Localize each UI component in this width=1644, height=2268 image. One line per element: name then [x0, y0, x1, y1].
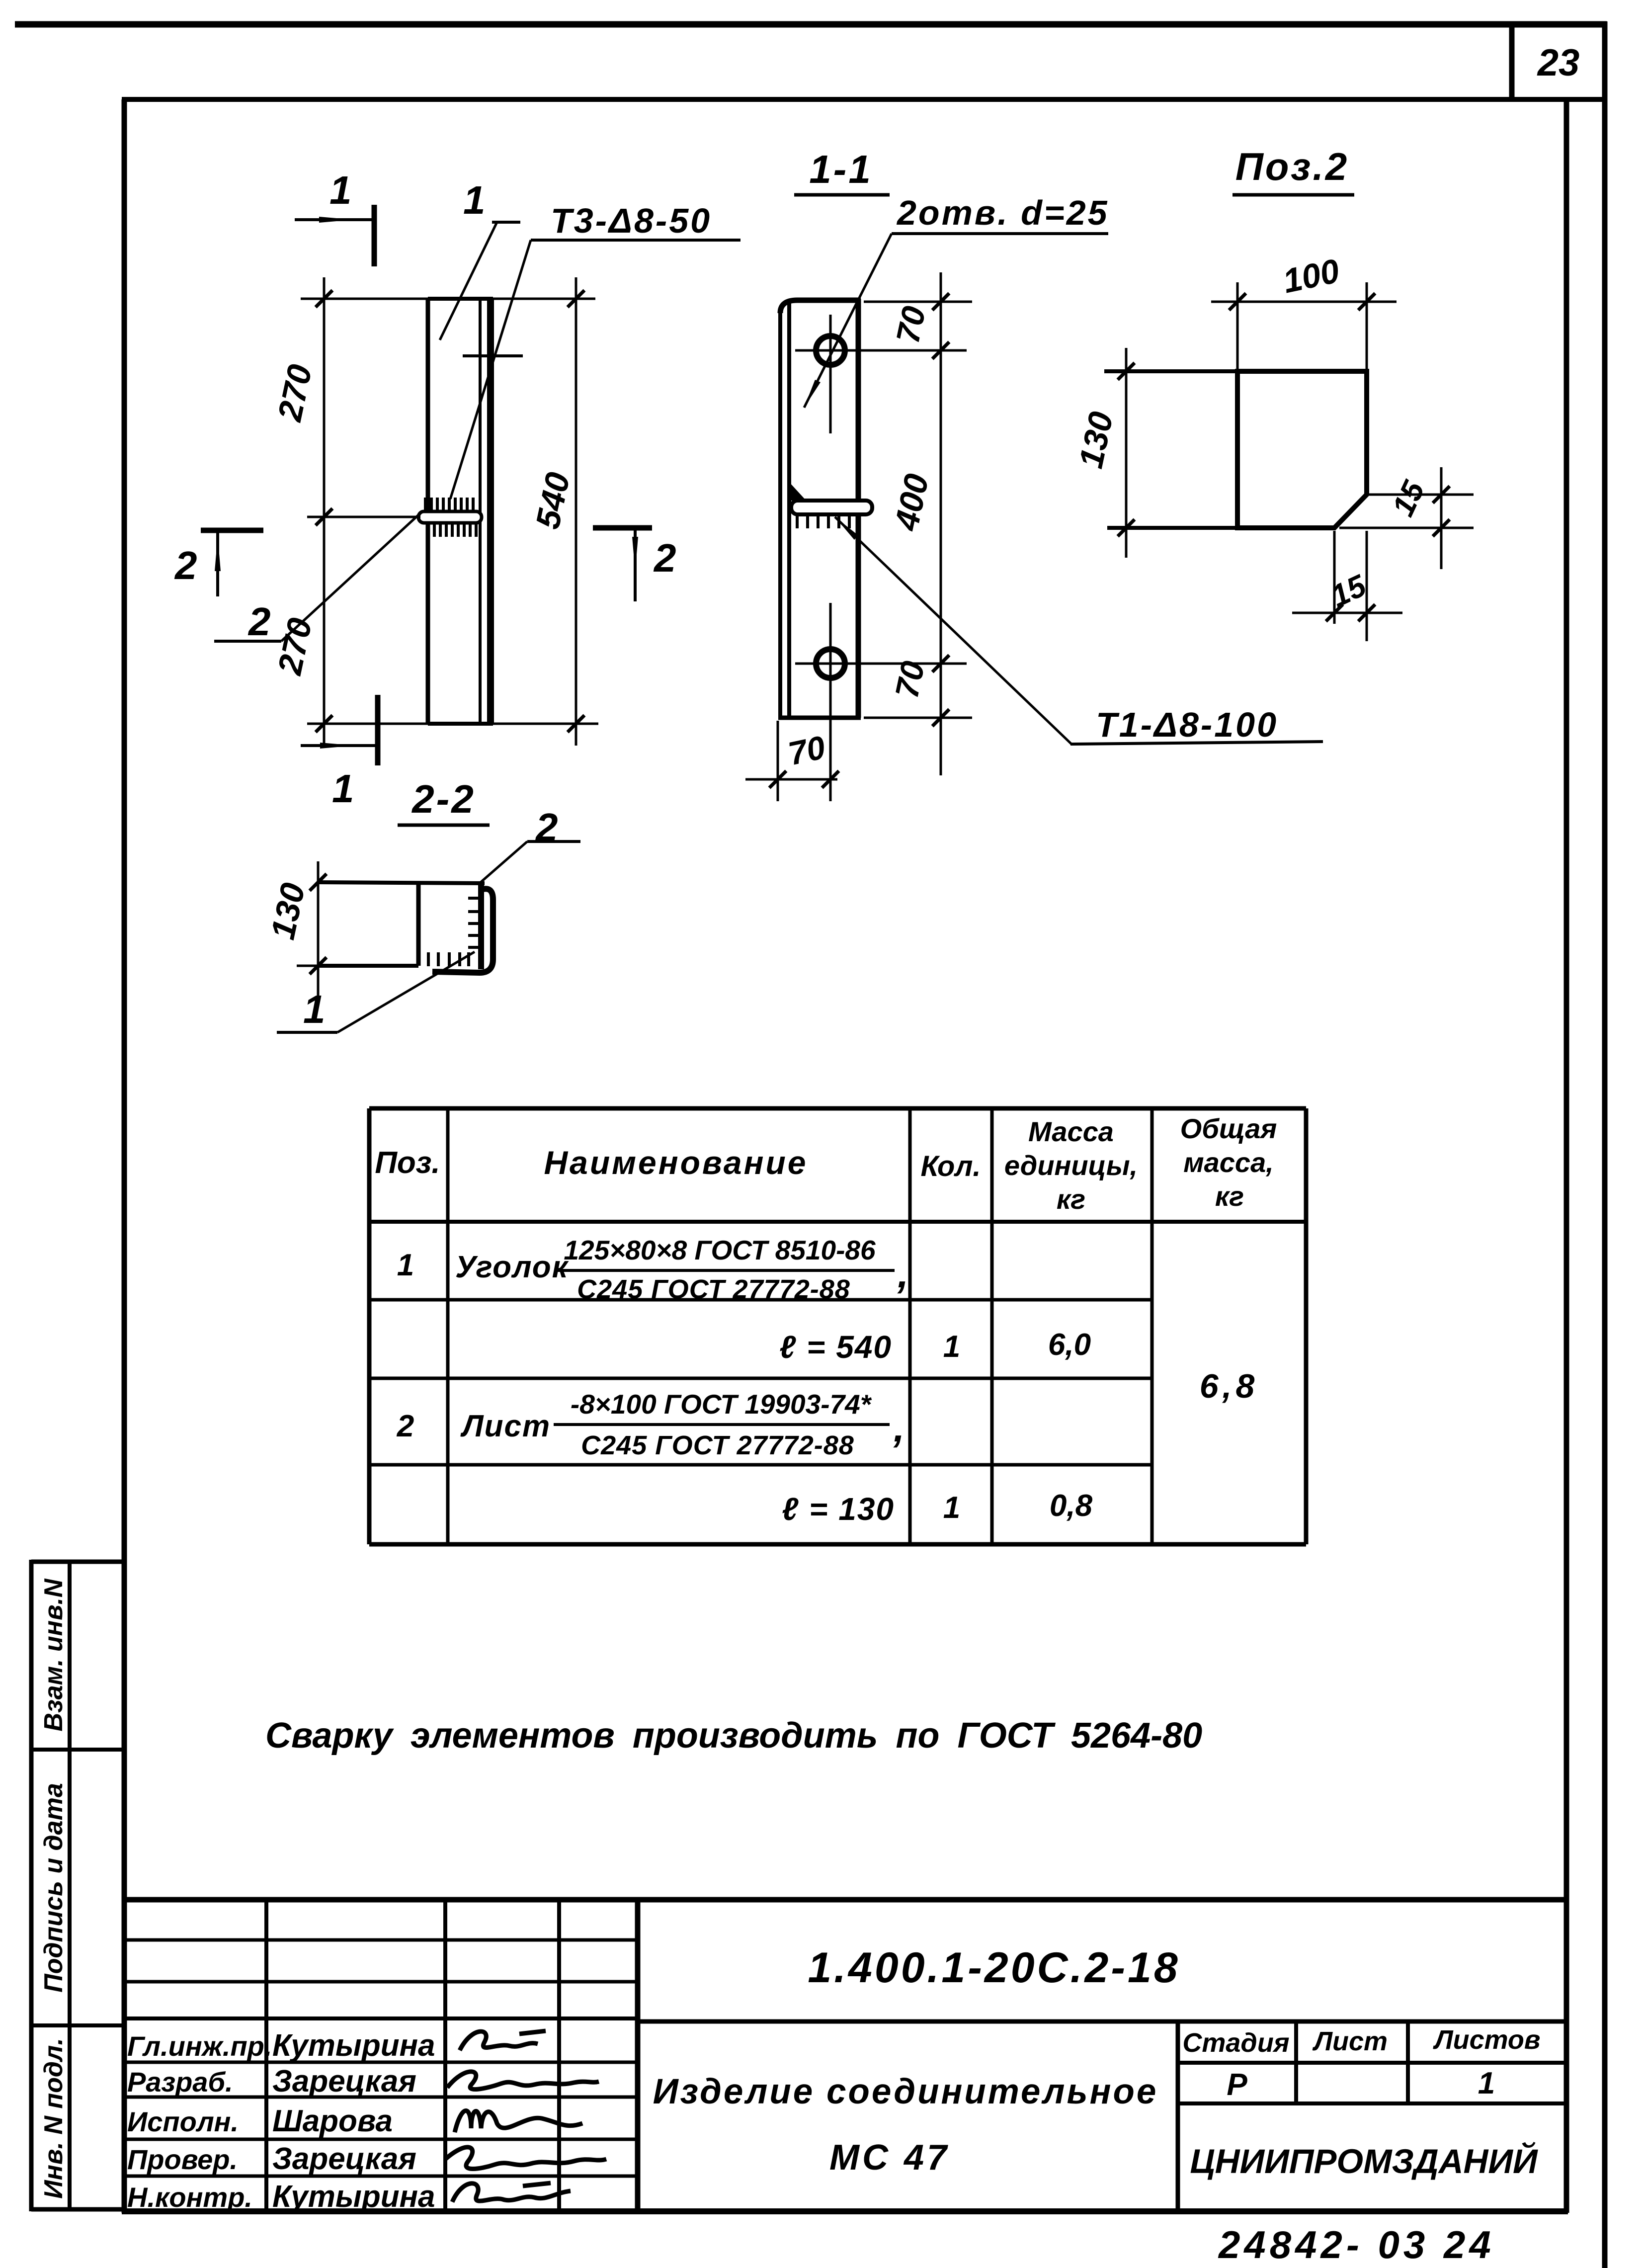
svg-text:6,8: 6,8: [1200, 1367, 1259, 1405]
svg-text:1: 1: [463, 178, 486, 222]
svg-text:1.400.1-20С.2-18: 1.400.1-20С.2-18: [808, 1944, 1180, 1992]
svg-text:Кутырина: Кутырина: [272, 2180, 435, 2214]
svg-text:6,0: 6,0: [1048, 1328, 1091, 1362]
svg-text:Взам. инв.N: Взам. инв.N: [39, 1578, 68, 1731]
svg-text:Н.контр.: Н.контр.: [127, 2182, 252, 2213]
svg-text:1: 1: [303, 987, 326, 1031]
svg-text:1: 1: [397, 1248, 414, 1282]
svg-text:Масса: Масса: [1028, 1116, 1114, 1147]
svg-text:70: 70: [785, 729, 828, 772]
svg-text:70: 70: [888, 658, 932, 701]
svg-text:,: ,: [897, 1252, 908, 1296]
svg-text:Кол.: Кол.: [920, 1150, 981, 1182]
svg-text:2: 2: [653, 536, 676, 580]
svg-text:МС 47: МС 47: [829, 2138, 950, 2178]
svg-text:Общая: Общая: [1180, 1113, 1277, 1144]
svg-text:-8×100 ГОСТ 19903-74*: -8×100 ГОСТ 19903-74*: [571, 1389, 872, 1420]
svg-text:ℓ = 540: ℓ = 540: [779, 1329, 892, 1365]
svg-text:125×80×8 ГОСТ 8510-86: 125×80×8 ГОСТ 8510-86: [564, 1235, 876, 1265]
svg-text:Зарецкая: Зарецкая: [272, 2064, 416, 2099]
svg-text:Уголок: Уголок: [455, 1250, 569, 1284]
svg-text:Инв. N подл.: Инв. N подл.: [39, 2038, 68, 2199]
svg-text:Поз.2: Поз.2: [1235, 145, 1349, 188]
svg-text:,: ,: [893, 1406, 904, 1450]
svg-text:1: 1: [1478, 2066, 1495, 2100]
svg-text:1-1: 1-1: [809, 147, 873, 191]
svg-text:Гл.инж.пр.: Гл.инж.пр.: [127, 2030, 272, 2062]
svg-text:Наименование: Наименование: [544, 1144, 808, 1181]
svg-text:Р: Р: [1227, 2068, 1247, 2102]
svg-text:1: 1: [329, 168, 352, 212]
svg-text:23: 23: [1537, 42, 1580, 84]
svg-text:единицы,: единицы,: [1004, 1150, 1138, 1181]
svg-text:кг: кг: [1057, 1183, 1085, 1215]
svg-text:Стадия: Стадия: [1182, 2028, 1289, 2058]
svg-text:Т1-Δ8-100: Т1-Δ8-100: [1096, 705, 1278, 744]
svg-text:70: 70: [889, 303, 933, 346]
svg-text:2: 2: [247, 599, 271, 644]
svg-text:Шарова: Шарова: [272, 2104, 393, 2138]
svg-text:0,8: 0,8: [1050, 1489, 1093, 1523]
svg-text:Подпись и дата: Подпись и дата: [39, 1783, 68, 1993]
svg-text:Исполн.: Исполн.: [127, 2106, 239, 2137]
svg-text:1: 1: [943, 1330, 960, 1364]
svg-text:Провер.: Провер.: [127, 2144, 238, 2175]
svg-text:Зарецкая: Зарецкая: [272, 2142, 416, 2176]
svg-text:Лист: Лист: [1312, 2026, 1388, 2056]
svg-text:2отв. d=25: 2отв. d=25: [896, 193, 1109, 232]
svg-text:2: 2: [397, 1409, 414, 1443]
svg-text:Кутырина: Кутырина: [272, 2028, 435, 2063]
svg-text:1: 1: [943, 1491, 960, 1525]
svg-text:ℓ = 130: ℓ = 130: [782, 1491, 895, 1527]
svg-text:Лист: Лист: [460, 1409, 551, 1443]
svg-text:ЦНИИПРОМЗДАНИЙ: ЦНИИПРОМЗДАНИЙ: [1190, 2142, 1538, 2181]
svg-text:кг: кг: [1215, 1180, 1244, 1212]
svg-text:1: 1: [332, 766, 354, 811]
svg-text:24842- 03 24: 24842- 03 24: [1218, 2223, 1495, 2267]
svg-text:Сварку элементов производить: Сварку элементов производить по ГОСТ 526…: [265, 1716, 1202, 1756]
svg-text:2: 2: [174, 543, 197, 588]
svg-text:Поз.: Поз.: [375, 1146, 440, 1180]
svg-text:С245 ГОСТ 27772-88: С245 ГОСТ 27772-88: [577, 1274, 850, 1304]
svg-text:Разраб.: Разраб.: [127, 2066, 233, 2098]
svg-text:Листов: Листов: [1432, 2025, 1540, 2055]
svg-text:Т3-Δ8-50: Т3-Δ8-50: [551, 201, 712, 240]
svg-text:2-2: 2-2: [411, 777, 476, 821]
svg-text:масса,: масса,: [1183, 1147, 1274, 1178]
svg-text:С245 ГОСТ 27772-88: С245 ГОСТ 27772-88: [581, 1430, 854, 1460]
svg-text:Изделие соединительное: Изделие соединительное: [653, 2072, 1158, 2111]
